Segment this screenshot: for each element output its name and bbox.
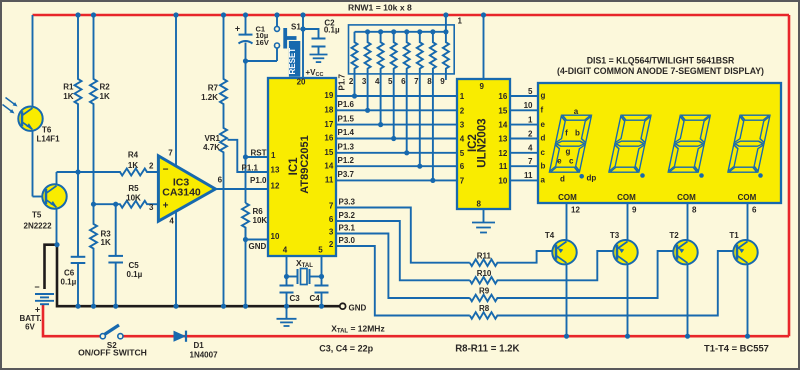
RNW1 common bus — [355, 31, 446, 33]
svg-text:d: d — [541, 134, 546, 143]
svg-text:1.2K: 1.2K — [201, 93, 218, 102]
wire P1.6 net — [336, 109, 457, 111]
svg-text:10: 10 — [524, 101, 533, 110]
node C1 top — [243, 12, 248, 17]
svg-text:f: f — [541, 106, 544, 115]
node RNW1 bus r7 — [430, 29, 435, 34]
node RNW1 bus r2 — [365, 29, 370, 34]
svg-text:dp: dp — [587, 174, 597, 183]
svg-text:13: 13 — [271, 165, 280, 174]
wire P3.7 net — [336, 179, 457, 181]
node C1 bottom — [243, 58, 248, 63]
svg-text:R5: R5 — [128, 184, 139, 193]
wire display COM to T2 emitter — [687, 203, 689, 240]
display digit 1 — [549, 115, 591, 172]
wire non-inverting input net (R2 - R5 - pin3) — [94, 201, 159, 208]
resistor R8 — [470, 251, 737, 319]
svg-text:P1.5: P1.5 — [338, 114, 355, 123]
capacitor C6 — [77, 172, 79, 257]
svg-text:g: g — [566, 147, 571, 156]
resistor R11 — [470, 251, 556, 266]
svg-text:2: 2 — [528, 129, 533, 138]
svg-text:1K: 1K — [100, 92, 110, 101]
svg-text:DIS1 = KLQ564/TWILIGHT 5641BSR: DIS1 = KLQ564/TWILIGHT 5641BSR — [587, 55, 735, 65]
svg-text:3: 3 — [329, 228, 334, 237]
wire IC3 pin7 to +V — [175, 15, 177, 166]
svg-text:c: c — [569, 157, 574, 166]
svg-text:7: 7 — [414, 77, 419, 86]
capacitor C3 — [280, 285, 294, 287]
svg-text:T3: T3 — [610, 231, 620, 240]
switch S1 RESET — [276, 15, 278, 26]
node R6 bottom / GND pin — [243, 237, 248, 242]
svg-text:C4: C4 — [310, 294, 321, 303]
svg-text:T1-T4 = BC557: T1-T4 = BC557 — [704, 342, 769, 353]
display digit 2 — [609, 115, 651, 172]
svg-text:15: 15 — [498, 106, 507, 115]
wire VR1 tap to P1.1 — [228, 140, 269, 172]
dp dot digit 4 — [758, 173, 763, 178]
ground below C2 — [310, 54, 328, 56]
resistor R2 — [90, 15, 97, 204]
diode D1 1N4007 — [174, 331, 187, 342]
node R2 bottom / R3 top — [91, 202, 96, 207]
svg-text:c: c — [541, 148, 546, 157]
svg-text:b: b — [575, 129, 580, 138]
wire T4 collector to rail — [566, 264, 568, 336]
svg-text:0.1µ: 0.1µ — [61, 278, 77, 287]
svg-text:S1: S1 — [291, 22, 301, 31]
capacitor C4 — [315, 285, 329, 287]
svg-text:C3: C3 — [290, 294, 301, 303]
svg-text:ULN2003: ULN2003 — [477, 118, 489, 167]
svg-text:a: a — [541, 176, 546, 185]
svg-text:P3.2: P3.2 — [339, 211, 356, 220]
svg-text:P1.2: P1.2 — [338, 156, 355, 165]
svg-text:16: 16 — [324, 134, 333, 143]
svg-text:2N2222: 2N2222 — [24, 222, 53, 231]
svg-text:R9: R9 — [479, 287, 490, 296]
svg-text:0.1µ: 0.1µ — [324, 26, 340, 35]
node C4 ground — [319, 304, 324, 309]
wire P3.3 to R11 — [336, 208, 470, 263]
svg-text:11: 11 — [524, 171, 533, 180]
svg-text:19: 19 — [324, 91, 333, 100]
svg-text:GND: GND — [249, 242, 267, 251]
node RNW1 bus r8 — [443, 29, 448, 34]
switch S2 — [100, 334, 105, 339]
wire bottom positive rail (red) — [123, 335, 789, 338]
svg-text:P1.7: P1.7 — [338, 73, 347, 90]
wire IC2 to display segment e — [510, 124, 538, 126]
svg-text:RST: RST — [251, 149, 267, 158]
svg-text:7: 7 — [168, 149, 173, 158]
svg-text:9: 9 — [440, 77, 445, 86]
svg-text:P1.3: P1.3 — [338, 143, 355, 152]
svg-text:COM: COM — [558, 193, 577, 202]
wire battery+ to switch S2 (red) — [43, 304, 100, 336]
svg-text:VR1: VR1 — [204, 134, 220, 143]
resistor R1 — [75, 15, 82, 172]
node VR1 bottom ground — [221, 304, 226, 309]
svg-text:f: f — [565, 129, 568, 138]
node RNW1 bus r5 — [404, 29, 409, 34]
svg-text:P1.1: P1.1 — [242, 164, 259, 173]
svg-text:R1: R1 — [63, 83, 74, 92]
svg-text:3: 3 — [362, 77, 367, 86]
GND terminal circle — [340, 303, 346, 309]
svg-text:T6: T6 — [42, 126, 52, 135]
resistor R10 — [470, 251, 617, 284]
svg-text:−: − — [34, 282, 39, 292]
svg-text:COM: COM — [617, 193, 636, 202]
node P1.4 / RNW1 pin 5 — [391, 136, 396, 141]
svg-text:BATT.: BATT. — [20, 314, 42, 323]
resistor R6 — [242, 203, 249, 240]
node RST junction — [243, 154, 248, 159]
svg-text:7: 7 — [460, 176, 465, 185]
node R1 top — [75, 12, 80, 17]
node T1 collector on rail — [745, 334, 750, 339]
wire display COM to T1 emitter — [747, 203, 749, 240]
node T4 collector on rail — [564, 334, 569, 339]
transistor T2 — [673, 240, 697, 264]
svg-text:R6: R6 — [253, 207, 264, 216]
svg-text:3: 3 — [460, 121, 465, 130]
RNW1 resistor 6 (pin 7) — [417, 32, 423, 166]
svg-text:0.1µ: 0.1µ — [127, 270, 143, 279]
svg-text:16: 16 — [498, 92, 507, 101]
svg-text:2: 2 — [460, 106, 465, 115]
wire P1.2 net — [336, 165, 457, 167]
node R1 bottom / C6 — [75, 169, 80, 174]
node C2 tap on Vcc — [300, 26, 305, 31]
svg-text:P1.6: P1.6 — [338, 100, 355, 109]
wire GND pin stub — [246, 239, 269, 241]
svg-text:GND: GND — [349, 304, 367, 313]
svg-text:+: + — [235, 24, 240, 34]
svg-text:(4-DIGIT COMMON ANODE 7-SEGMEN: (4-DIGIT COMMON ANODE 7-SEGMENT DISPLAY) — [557, 66, 764, 76]
wire ground bus (black) — [45, 245, 340, 307]
svg-text:12: 12 — [271, 182, 280, 191]
node RNW1 bus r4 — [391, 29, 396, 34]
svg-text:4: 4 — [169, 216, 174, 225]
svg-text:P3.1: P3.1 — [339, 224, 356, 233]
svg-text:4.7K: 4.7K — [203, 143, 220, 152]
dp dot digit 2 — [640, 173, 645, 178]
svg-text:P3.0: P3.0 — [339, 236, 356, 245]
node P1.3 / RNW1 pin 6 — [404, 150, 409, 155]
node R2 top — [91, 12, 96, 17]
svg-text:20: 20 — [297, 78, 306, 87]
svg-text:12: 12 — [571, 206, 580, 215]
wire IC2 pin8 to ground — [483, 209, 485, 223]
svg-text:1K: 1K — [101, 238, 111, 247]
svg-text:6V: 6V — [25, 323, 35, 332]
wire T3 collector to rail — [627, 264, 629, 336]
svg-text:2: 2 — [349, 77, 354, 86]
svg-text:P3.3: P3.3 — [339, 198, 356, 207]
svg-text:5: 5 — [318, 246, 323, 255]
wire display COM to T3 emitter — [627, 203, 629, 240]
node C5 top — [113, 202, 118, 207]
svg-text:14: 14 — [498, 121, 507, 130]
resistor R9 — [470, 251, 677, 301]
resistor R3 — [90, 204, 97, 306]
transistor T5 — [56, 172, 58, 184]
svg-text:d: d — [560, 175, 565, 184]
svg-text:5: 5 — [388, 77, 393, 86]
svg-text:15: 15 — [324, 148, 333, 157]
svg-text:T4: T4 — [545, 231, 555, 240]
svg-text:1: 1 — [460, 92, 465, 101]
svg-text:10K: 10K — [126, 194, 141, 203]
RNW1 resistor 5 (pin 6) — [404, 32, 410, 153]
ground below C3 — [286, 306, 288, 319]
op-amp IC3 CA3140 — [158, 156, 215, 221]
wire IC2 to display segment f — [510, 109, 538, 111]
svg-text:2: 2 — [329, 240, 334, 249]
wire +V top rail (red) — [33, 14, 790, 17]
svg-text:4: 4 — [375, 77, 380, 86]
svg-text:8: 8 — [692, 206, 697, 215]
wire P3.2 to R10 — [336, 221, 470, 280]
svg-text:P3.7: P3.7 — [338, 170, 355, 179]
transistor T3 — [613, 240, 637, 264]
wire T2 collector to rail — [687, 264, 689, 336]
wire pin5 to crystal — [321, 256, 323, 286]
svg-text:5: 5 — [528, 87, 533, 96]
RNW1 pin 1 riser to +V — [445, 15, 447, 32]
svg-text:18: 18 — [324, 106, 333, 115]
svg-text:10K: 10K — [253, 216, 268, 225]
svg-text:10: 10 — [498, 176, 507, 185]
svg-text:R11: R11 — [477, 252, 492, 261]
svg-text:R8-R11 = 1.2K: R8-R11 = 1.2K — [455, 343, 519, 354]
ground below IC2 — [472, 222, 495, 224]
node P1.2 / RNW1 pin 7 — [417, 164, 422, 169]
svg-text:AT89C2051: AT89C2051 — [299, 135, 311, 194]
svg-text:9: 9 — [480, 82, 485, 91]
dp dot digit 1 — [579, 174, 584, 179]
svg-text:1N4007: 1N4007 — [190, 350, 219, 359]
IC1 AT89C2051 — [268, 78, 336, 256]
wire IC2 to display segment d — [510, 138, 538, 140]
svg-text:8: 8 — [477, 200, 482, 209]
RNW1 resistor 4 (pin 5) — [391, 32, 397, 139]
light arrows into T6 — [6, 98, 16, 105]
node crystal left — [284, 274, 289, 279]
battery BATT. 6V — [35, 294, 54, 304]
svg-text:1K: 1K — [128, 161, 138, 170]
wire IC2 pin9 to +V — [483, 15, 485, 79]
svg-text:b: b — [541, 161, 546, 170]
wire +V right rail (red) — [788, 15, 791, 336]
RNW1 resistor 1 (pin 2) — [352, 32, 358, 96]
node C3 ground — [284, 304, 289, 309]
svg-text:RNW1 = 10k x 8: RNW1 = 10k x 8 — [348, 3, 412, 13]
svg-text:e: e — [557, 157, 562, 166]
node crystal right — [319, 274, 324, 279]
crystal XTAL — [287, 276, 298, 278]
svg-text:6: 6 — [329, 215, 334, 224]
node S1 top — [274, 12, 279, 17]
wire IC3 output pin6 to P1.0 — [215, 188, 268, 190]
wire P1.5 net — [336, 124, 457, 126]
node RNW1 bus r6 — [417, 29, 422, 34]
svg-text:+: + — [163, 201, 169, 212]
svg-text:1: 1 — [271, 151, 276, 160]
svg-text:6: 6 — [752, 206, 757, 215]
dp dot digit 3 — [699, 173, 704, 178]
RNW1 resistor 7 (pin 8) — [430, 32, 436, 181]
capacitor C5 — [115, 204, 117, 256]
svg-text:1: 1 — [458, 17, 463, 26]
svg-text:e: e — [541, 120, 546, 129]
wire P1.7 net — [336, 95, 457, 97]
svg-text:P1.0: P1.0 — [250, 176, 267, 185]
svg-text:1: 1 — [528, 115, 533, 124]
svg-text:R10: R10 — [477, 269, 492, 278]
svg-text:12: 12 — [498, 149, 507, 158]
resistor network RNW1 box — [349, 25, 455, 74]
svg-text:C3, C4 = 22p: C3, C4 = 22p — [319, 343, 373, 353]
wire pin4 to crystal — [286, 256, 288, 286]
svg-text:−: − — [163, 164, 169, 175]
wire RST pin stub — [246, 156, 269, 158]
svg-text:g: g — [541, 91, 546, 100]
svg-text:C5: C5 — [129, 261, 140, 270]
display digit 4 — [728, 115, 770, 172]
wire T1 collector to rail — [747, 264, 749, 336]
node T3 collector on rail — [625, 334, 630, 339]
ground dots on black bus — [75, 304, 80, 309]
phototransistor T6 — [32, 15, 34, 107]
node P1.6 / RNW1 pin 3 — [365, 108, 370, 113]
wire IC3 pin4 to ground — [175, 212, 177, 307]
svg-text:6: 6 — [460, 162, 465, 171]
svg-text:6: 6 — [401, 77, 406, 86]
capacitor C2 — [303, 29, 319, 39]
svg-text:D1: D1 — [194, 341, 205, 350]
wire P1.3 net — [336, 152, 457, 154]
wire IC2 to display segment g — [510, 95, 538, 97]
svg-text:14: 14 — [324, 161, 333, 170]
svg-text:COM: COM — [677, 193, 696, 202]
svg-text:L14F1: L14F1 — [37, 135, 61, 144]
svg-text:11: 11 — [325, 176, 334, 185]
svg-text:4: 4 — [460, 135, 465, 144]
svg-text:T5: T5 — [32, 211, 42, 220]
svg-text:2: 2 — [149, 162, 154, 171]
svg-text:P1.4: P1.4 — [338, 128, 355, 137]
node RNW1 bus r3 — [378, 29, 383, 34]
svg-text:T1: T1 — [729, 231, 739, 240]
wire display COM to T4 emitter — [566, 203, 568, 240]
svg-text:17: 17 — [324, 120, 333, 129]
RNW1 resistor 3 (pin 4) — [378, 32, 384, 125]
RNW1 resistor 8 (pin 9) — [443, 32, 449, 80]
wire inverting input net (T5 collector - R4 - pin2) — [57, 169, 159, 176]
RNW1 resistor 2 (pin 3) — [365, 32, 371, 111]
node T5 emitter / ground — [54, 242, 59, 247]
svg-text:RESET: RESET — [288, 48, 297, 75]
transistor T1 — [733, 240, 757, 264]
svg-text:C6: C6 — [64, 269, 75, 278]
svg-text:13: 13 — [498, 135, 507, 144]
display digit 3 — [668, 115, 710, 172]
node P3.7 / RNW1 pin 8 — [430, 178, 435, 183]
svg-text:a: a — [574, 107, 579, 116]
svg-text:6: 6 — [218, 176, 223, 185]
svg-text:7: 7 — [528, 157, 533, 166]
IC2 ULN2003 — [457, 79, 510, 209]
wire P3.1 to R9 — [336, 234, 470, 299]
transistor T4 — [552, 240, 576, 264]
svg-text:COM: COM — [738, 193, 757, 202]
svg-text:16V: 16V — [256, 38, 269, 47]
wire IC2 to display segment c — [510, 152, 538, 154]
wire IC2 to display segment b — [510, 165, 538, 167]
svg-text:R7: R7 — [208, 84, 219, 93]
svg-text:7: 7 — [329, 202, 334, 211]
svg-text:4: 4 — [528, 144, 533, 153]
wire +Vcc to pin 20 — [302, 15, 304, 78]
svg-text:4: 4 — [283, 246, 288, 255]
node T2 collector on rail — [685, 334, 690, 339]
wire P3.0 to R8 — [336, 246, 470, 316]
svg-text:8: 8 — [427, 77, 432, 86]
capacitor C1 electrolytic — [245, 15, 247, 35]
svg-text:ON/OFF SWITCH: ON/OFF SWITCH — [78, 347, 147, 357]
svg-text:CA3140: CA3140 — [162, 187, 201, 199]
resistor R7 and preset VR1 chain — [220, 15, 227, 306]
svg-text:1K: 1K — [63, 92, 73, 101]
svg-text:9: 9 — [632, 206, 637, 215]
svg-text:3: 3 — [149, 203, 154, 212]
node R7 top — [221, 12, 226, 17]
node P1.7 / RNW1 pin 2 — [352, 93, 357, 98]
svg-text:R2: R2 — [100, 83, 111, 92]
wire IC2 to display segment a — [510, 179, 538, 181]
svg-text:11: 11 — [499, 162, 508, 171]
svg-text:R8: R8 — [479, 304, 490, 313]
display DIS1 box — [538, 83, 781, 203]
svg-text:10: 10 — [271, 232, 280, 241]
svg-text:R4: R4 — [128, 151, 139, 160]
wire P1.4 net — [336, 138, 457, 140]
node P1.5 / RNW1 pin 4 — [378, 122, 383, 127]
svg-text:5: 5 — [460, 149, 465, 158]
svg-text:T2: T2 — [669, 231, 679, 240]
wire C1/S1 to RST net — [246, 60, 278, 62]
